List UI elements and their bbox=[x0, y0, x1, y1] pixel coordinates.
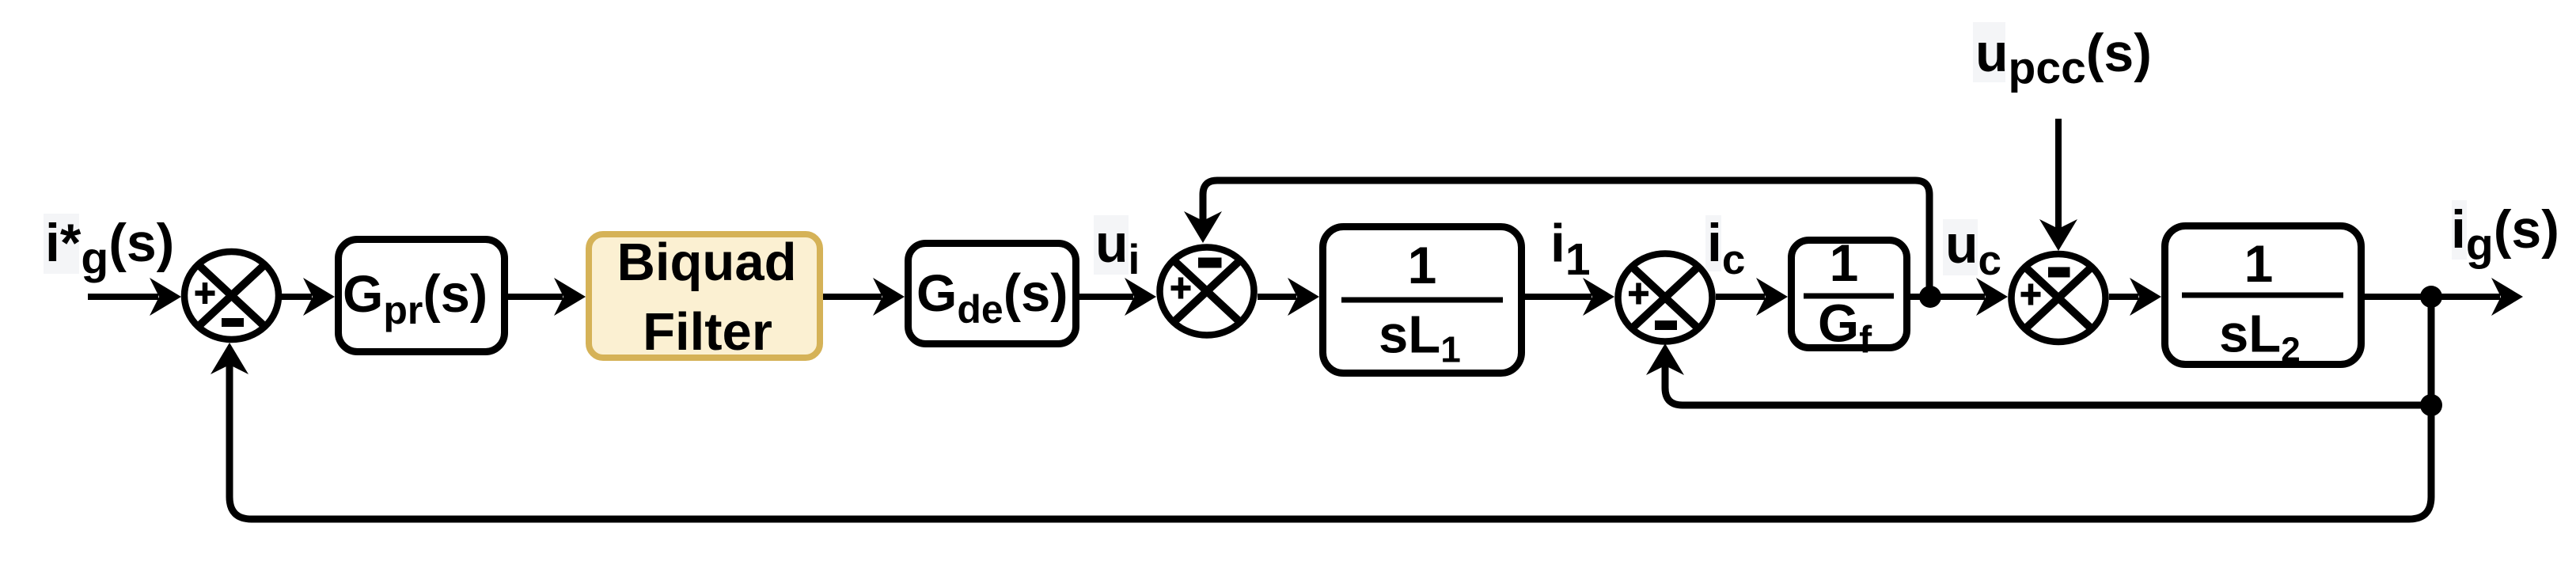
svg-text:1: 1 bbox=[1830, 233, 1859, 292]
svg-text:Filter: Filter bbox=[643, 302, 772, 362]
svg-text:1: 1 bbox=[2244, 234, 2274, 293]
svg-text:Biquad: Biquad bbox=[616, 233, 796, 292]
svg-text:1: 1 bbox=[1408, 236, 1437, 294]
